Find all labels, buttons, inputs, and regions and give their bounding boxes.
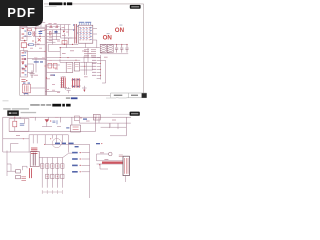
red dot [50, 120, 51, 121]
junction dots band [60, 57, 85, 67]
diode row 2 [46, 174, 65, 178]
secondary bus [39, 153, 73, 188]
transformer T102 windings (red) [73, 78, 80, 88]
blue pin labels [23, 83, 30, 95]
bottom tick row [42, 190, 62, 194]
page 2 logo side text [21, 112, 36, 113]
faint page footer text [3, 100, 9, 101]
capacitor C121 [120, 44, 123, 52]
electrolytic C110 [30, 70, 35, 78]
transformer T101 [75, 24, 77, 44]
bottom small parts [67, 86, 87, 93]
small part above connector [119, 155, 123, 157]
page 2 top-right part label [130, 112, 140, 116]
red dots right col [80, 152, 81, 172]
cap C201 [20, 124, 24, 125]
page 2 tiny gray address line [3, 108, 11, 109]
cap C210 [16, 170, 21, 173]
page 1 header title text (bold black) [49, 2, 72, 5]
capacitor C122 [125, 44, 128, 52]
capacitor C112 [54, 32, 57, 33]
Q201 inner [73, 127, 79, 130]
red marks left [21, 177, 26, 181]
output connector CN201 wires [97, 161, 126, 182]
T102 core lines [71, 80, 81, 86]
IC pin grid blue [80, 29, 91, 39]
node dots [116, 44, 128, 45]
blue dash label [50, 75, 55, 76]
middle horizontal wires [47, 28, 76, 38]
capacitor CX101 [33, 31, 34, 36]
PDF badge [0, 0, 43, 26]
page 1 title block table bottom-right [111, 93, 147, 98]
IC top labels [79, 22, 91, 23]
secondary cap row: hatched box 1 [100, 45, 106, 53]
capacitor C105 [22, 69, 26, 70]
main bus wire [3, 117, 131, 152]
wire grid mid [48, 38, 100, 56]
varistor RV101 [28, 32, 31, 35]
resistor R110 [49, 32, 51, 35]
CN201 body [123, 156, 129, 175]
output fuse F201 [97, 154, 109, 161]
cap C113 [50, 25, 51, 28]
long return wire [3, 123, 127, 152]
winding dots [73, 79, 79, 87]
red dots on rows [42, 166, 63, 177]
pale labels lower mid [34, 58, 58, 85]
cap row top wire [100, 44, 128, 53]
net stub tree right [97, 55, 106, 83]
red accent dots mid [23, 138, 52, 145]
inductor L110 winding dashes [84, 50, 89, 57]
lower mid wires [32, 48, 100, 73]
diode D102 [22, 63, 25, 65]
standby box circuit [9, 119, 29, 132]
red dot [99, 164, 100, 165]
capacitor C120 [115, 44, 118, 52]
diode D201 [45, 119, 49, 122]
transformer T103 windings red [62, 78, 66, 88]
inductor L111 winding dashes [91, 50, 96, 57]
connector strip cell marks [22, 52, 25, 73]
faint subtitle dash under bar [45, 5, 57, 8]
left side wires [7, 151, 27, 177]
T201 windings [33, 153, 35, 166]
U201 pins [95, 116, 100, 118]
wire right [99, 118, 131, 129]
page 2 header small gray text [30, 104, 51, 106]
svg-text:ON: ON [115, 27, 125, 34]
input connector strip [21, 26, 28, 40]
IC pin grid [79, 27, 90, 40]
red accent cluster [24, 40, 34, 46]
box inner marks [67, 64, 78, 68]
node dot [14, 117, 15, 118]
ladder right of bus [47, 25, 73, 45]
blue net labels [72, 152, 78, 173]
fuse F101 [28, 29, 32, 31]
red dot lower [101, 143, 102, 144]
heavy red trace [102, 162, 123, 164]
node dots [60, 44, 73, 48]
IC U102 PWM block [78, 25, 93, 43]
hatched box 2 [107, 45, 113, 53]
wire [24, 88, 45, 95]
blue pin label [66, 126, 69, 129]
wire [42, 123, 61, 127]
relay K102 box [48, 63, 52, 68]
red part below T201 [30, 168, 32, 178]
red junction dots tree [100, 63, 101, 76]
diode D121 [83, 90, 85, 92]
wire into box [15, 119, 25, 132]
relay K101 [21, 43, 26, 48]
IC pin dots blue [90, 27, 91, 40]
winding dots [73, 24, 79, 33]
wire [27, 58, 45, 72]
rectifier DB201 (red) [31, 148, 37, 153]
bus junction dots [45, 29, 48, 78]
thermistor NT101 [22, 84, 30, 93]
winding marks [24, 85, 28, 91]
tiny labels p2 [16, 117, 116, 160]
sub box B2 [74, 62, 79, 71]
relay K103 box [53, 63, 57, 68]
mid ladder wires [3, 135, 69, 153]
AC input top wire [22, 23, 45, 28]
page 2 logo box (black) [7, 110, 18, 115]
strip cell marks [22, 28, 25, 39]
transformer T201 box [30, 152, 39, 167]
red X mark D-symbol [38, 38, 41, 41]
wire [21, 27, 46, 47]
wire [24, 45, 45, 52]
wire from IC [77, 29, 97, 48]
diode D103 [25, 66, 28, 68]
page footer separator marks (page number) [66, 97, 70, 98]
page 1 sheet frame [20, 4, 144, 96]
transistor Q202 circle [52, 139, 61, 148]
page 1 top-right part label [130, 5, 141, 9]
ground sym [64, 88, 67, 90]
blue dash pair [39, 31, 43, 34]
cap C203 [52, 120, 57, 124]
cap C114 [56, 25, 57, 28]
wire down to cap row [45, 90, 60, 92]
right column net stubs [81, 152, 89, 198]
blue label [83, 119, 87, 120]
diode D110 [63, 31, 66, 33]
sub box B1 [66, 62, 73, 72]
resistor R201 [13, 121, 17, 127]
cap C211 [16, 175, 21, 178]
wire [79, 121, 126, 136]
blue dash lower [96, 143, 100, 144]
blue cap C115 [55, 31, 58, 32]
resistor R103 [28, 44, 33, 46]
blue connector labels row [55, 143, 79, 148]
tiny value labels scatter page1 [34, 27, 108, 77]
resistor R105 [22, 58, 26, 60]
label [21, 55, 26, 56]
node dots [35, 28, 40, 43]
page 2 header bold black model text [52, 104, 70, 107]
bridge block D101 box [20, 51, 27, 78]
CN201 pins [125, 158, 128, 174]
opto U103 [62, 41, 67, 44]
wire to label [112, 113, 130, 115]
Q201 [70, 125, 80, 132]
stub labels [92, 57, 96, 76]
small box Q203 [74, 116, 79, 121]
diode row 1 (rects on windings) [41, 164, 65, 168]
hatched heatsink column [60, 77, 63, 88]
blue labels mid [34, 61, 43, 62]
small sub labels [119, 24, 122, 27]
red dot [80, 117, 81, 118]
svg-text:ON: ON [103, 34, 113, 41]
tiny pink labels band [28, 23, 69, 49]
red bits below strip [21, 80, 25, 82]
IC U201 small [93, 114, 100, 120]
IC pin ticks top [80, 23, 91, 25]
pale marks bottom band [46, 89, 60, 93]
top band extra wires [47, 60, 87, 75]
bus line pair (vertical) [45, 25, 46, 96]
